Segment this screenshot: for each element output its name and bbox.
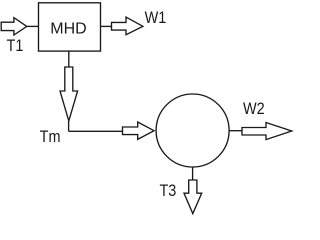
- svg-text:MHD: MHD: [50, 20, 86, 37]
- svg-text:W2: W2: [243, 100, 265, 118]
- svg-text:T3: T3: [159, 182, 176, 200]
- svg-text:W1: W1: [145, 9, 167, 27]
- svg-text:T1: T1: [7, 37, 24, 55]
- svg-text:Tm: Tm: [40, 128, 61, 146]
